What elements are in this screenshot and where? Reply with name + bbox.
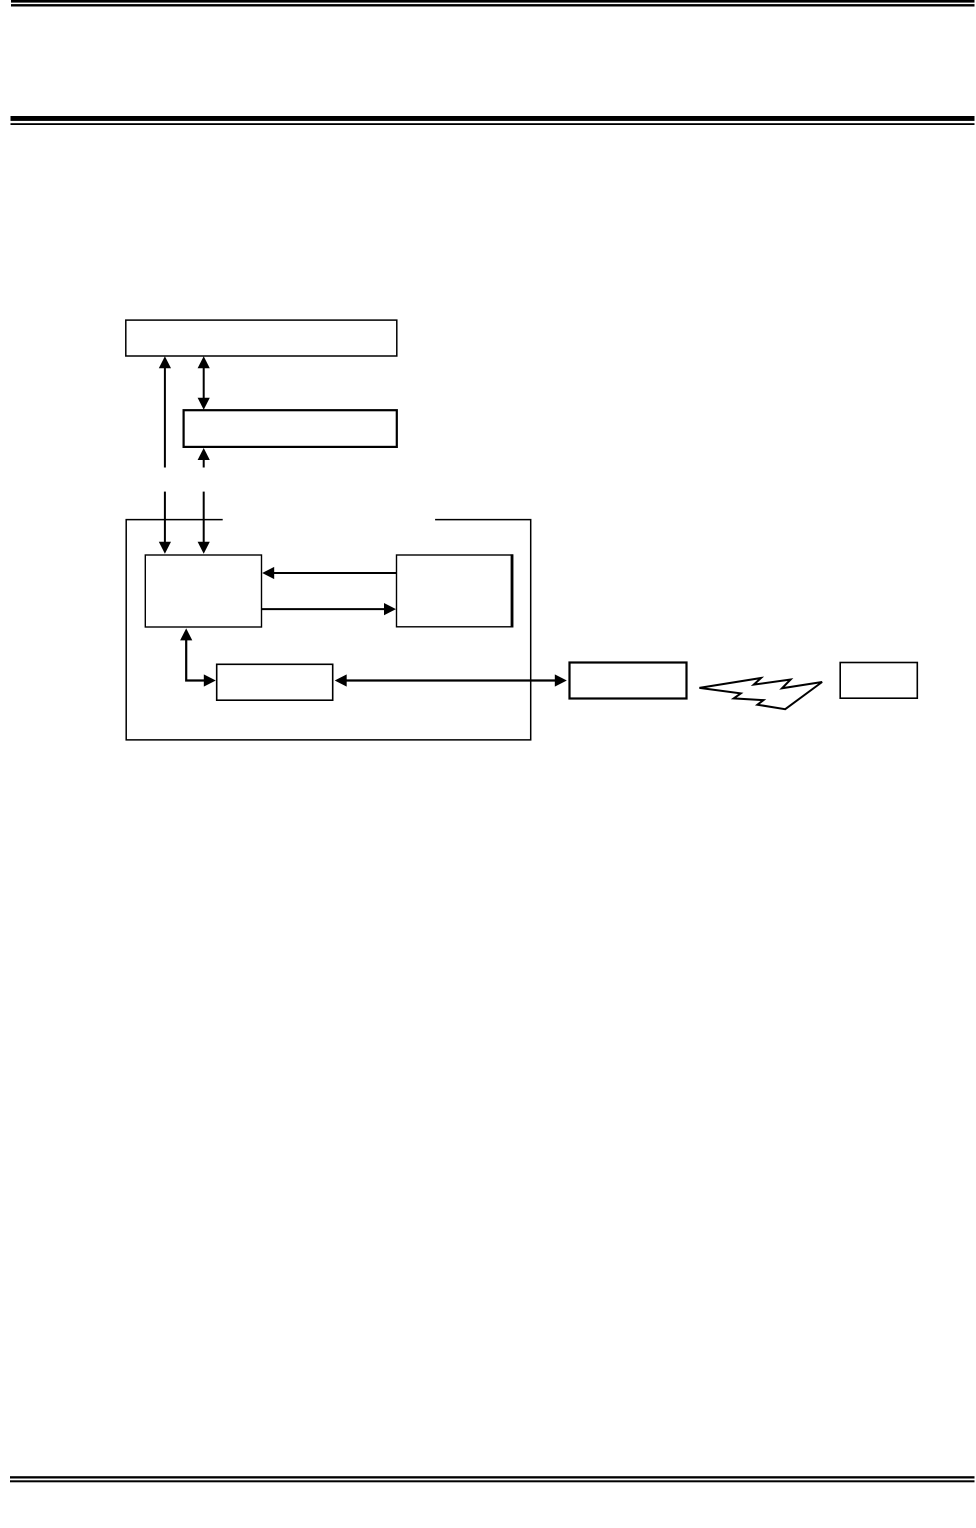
right inner box thick right border (511, 554, 514, 627)
wire: short up arrowhead under B2 (198, 448, 210, 468)
wire: arrow MEM to CPU (upper horizontal, points left) (262, 567, 396, 579)
wire: left vertical line lower segment with down arrowhead into CPU box (159, 492, 171, 554)
box MEM (right inner box, thick right edge) (397, 555, 513, 627)
box BIOS (small inner box at bottom) (217, 664, 333, 700)
container box (main board) with gap in top border (126, 520, 531, 740)
wire: arrow CPU to MEM (lower horizontal, points right) (262, 603, 397, 615)
box keyboard (right external box) (840, 663, 917, 699)
page bottom double rule (10, 1476, 975, 1482)
box B2 (second wide box) (184, 410, 397, 447)
wire: right vertical line lower segment with down arrowhead into CPU box (198, 492, 210, 554)
wire: long double-headed arrow from small box to external box (335, 674, 567, 686)
wire: double-headed arrow between B1 and B2 (198, 356, 210, 409)
box CPU (left inner box) (145, 555, 261, 627)
lightning bolt shape (699, 678, 822, 709)
box B1 (top wide box) (126, 320, 397, 356)
box KB connector (middle external box) (570, 663, 687, 699)
wire: left vertical line upper segment with up arrowhead into B1 (159, 356, 171, 467)
header thick-thin rule (11, 116, 975, 125)
page top double rule (11, 0, 975, 7)
wire: L-shaped arrow from small box area up into CPU and right into small box (180, 628, 216, 686)
